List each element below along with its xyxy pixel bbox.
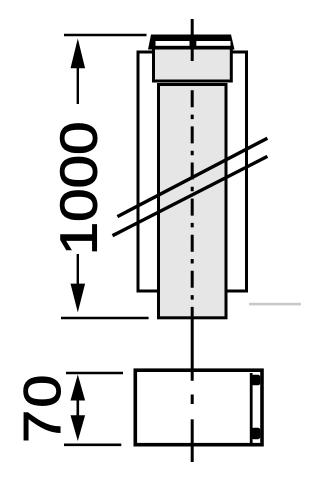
dim 1000 upper shaft	[77, 67, 79, 104]
centerline solid through box bottom	[191, 419, 194, 462]
cap white slit left	[156, 41, 190, 46]
svg-text:1000: 1000	[50, 121, 108, 255]
seal channel line	[250, 373, 253, 443]
dim 70 up arrow	[71, 375, 86, 401]
centerline dash in box	[191, 395, 194, 405]
faint page artifact line	[249, 303, 301, 306]
dim 1000 bottom extension line	[61, 317, 149, 320]
dim 70 top extension line	[66, 372, 123, 375]
break line upper	[117, 138, 267, 216]
inner flue pipe (grey)	[159, 85, 227, 318]
dim 70 shaft	[77, 399, 80, 417]
centerline dash-dot in pipe	[191, 90, 194, 317]
bottom sleeve box	[135, 370, 262, 445]
svg-text:70: 70	[13, 372, 71, 442]
dim 1000 up arrow	[71, 39, 86, 69]
centerline solid pipe bottom to box	[191, 317, 194, 381]
dim 1000 down arrow	[71, 284, 86, 313]
break line lower	[113, 156, 268, 235]
cap white slit right	[196, 41, 230, 46]
dim 70 down arrow	[71, 415, 86, 441]
dim 1000 top extension line	[64, 34, 147, 37]
seal blob bottom	[251, 428, 260, 440]
outer pipe left wall	[138, 52, 159, 291]
seal blob top	[251, 375, 260, 386]
cap centre divider	[190, 39, 197, 48]
dim 1000 lower shaft	[77, 254, 79, 285]
outer pipe right wall	[226, 52, 247, 291]
dim 70 bottom extension line	[64, 443, 121, 446]
collar (inner pipe socket)	[154, 48, 232, 81]
centerline solid top through cap and collar	[191, 19, 194, 61]
cap (black seal ring)	[148, 35, 235, 50]
